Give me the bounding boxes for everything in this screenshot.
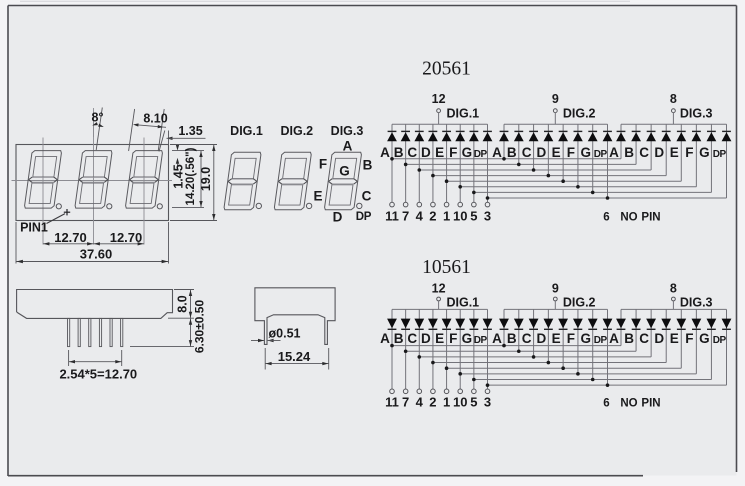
title 10561 [422, 257, 471, 278]
svg-text:G: G [580, 145, 591, 160]
svg-text:F: F [449, 331, 457, 346]
label DIG.2 (segment diagram) [280, 124, 313, 138]
bus DIG.3 common rail [20561] [621, 123, 726, 125]
segment label D DIG.3 [20561] [654, 145, 664, 160]
LED DIG.3 segment C [10561] [646, 309, 656, 357]
digit DIG.2 glyph (segment diagram) [274, 152, 311, 210]
segment label B DIG.1 [20561] [394, 145, 404, 160]
pin 5 (segment G) [20561] [470, 202, 477, 223]
svg-text:F: F [685, 145, 693, 160]
net segment B interconnect [10561] [404, 349, 636, 353]
note 6 NO PIN [10561] [603, 398, 660, 410]
decimal point DIG.2 (segment diagram) [306, 203, 311, 208]
segment label F DIG.1 [10561] [449, 331, 457, 346]
LED DIG.2 segment E [20561] [558, 124, 568, 181]
node DIG.2 label [20561] [563, 107, 596, 121]
svg-text:F: F [567, 331, 575, 346]
svg-text:F: F [449, 145, 457, 160]
pin 1 (segment E) [20561] [443, 202, 450, 223]
svg-text:B: B [394, 331, 404, 346]
decimal point DIG.1 (segment diagram) [256, 203, 261, 208]
svg-text:6.30±0.50: 6.30±0.50 [193, 300, 207, 354]
segment label DP DIG.1 [10561] [474, 335, 488, 346]
LED DIG.1 segment B [10561] [401, 309, 411, 389]
svg-text:14.20(.56"): 14.20(.56") [185, 147, 197, 205]
svg-text:4: 4 [416, 395, 424, 410]
segment label E DIG.3 [10561] [670, 331, 679, 346]
svg-text:C: C [639, 145, 649, 160]
svg-text:5: 5 [470, 395, 477, 410]
segment label DP DIG.2 [20561] [594, 149, 608, 160]
segment label C DIG.1 [10561] [407, 331, 417, 346]
segment label F DIG.2 [10561] [567, 331, 575, 346]
title 20561 [422, 59, 471, 80]
LED DIG.3 segment DP [10561] [722, 309, 732, 385]
segment label B (segment diagram) [363, 158, 373, 173]
bus DIG.2 common rail [10561] [504, 308, 608, 310]
label DIG.3 (segment diagram) [331, 124, 364, 138]
LED DIG.2 segment D [10561] [544, 309, 554, 362]
LED DIG.2 segment A [20561] [499, 124, 509, 159]
LED DIG.3 segment D [20561] [661, 124, 671, 175]
side view pin 3 [89, 318, 91, 346]
svg-text:DIG.2: DIG.2 [563, 107, 596, 121]
segment label E DIG.1 [10561] [435, 331, 444, 346]
segment label A DIG.1 [20561] [380, 145, 390, 160]
svg-text:DP: DP [356, 211, 372, 223]
LED DIG.2 segment B [20561] [514, 124, 524, 164]
net segment C interconnect [10561] [417, 355, 651, 359]
net segment D interconnect [10561] [431, 361, 666, 365]
svg-text:E: E [435, 331, 444, 346]
LED DIG.1 segment E [20561] [442, 124, 452, 202]
svg-text:D: D [654, 331, 664, 346]
segment label F DIG.3 [10561] [685, 331, 693, 346]
pin 11 (segment A) [20561] [385, 202, 399, 223]
svg-text:C: C [522, 145, 532, 160]
segment label A DIG.3 [20561] [609, 145, 619, 160]
pin 11 (segment A) [10561] [385, 389, 399, 410]
svg-text:D: D [421, 331, 431, 346]
svg-text:DP: DP [594, 149, 608, 160]
segment label E DIG.2 [10561] [552, 331, 561, 346]
svg-text:10561: 10561 [422, 257, 471, 278]
pin 4 (segment C) [20561] [416, 202, 424, 223]
svg-text:1: 1 [443, 208, 450, 223]
svg-text:8: 8 [670, 281, 677, 295]
svg-text:NO: NO [620, 398, 637, 410]
svg-text:DP: DP [713, 335, 727, 346]
net segment B interconnect [20561] [404, 163, 636, 167]
side view pin 5 [110, 318, 112, 346]
bus DIG.1 common rail [10561] [392, 308, 488, 310]
LED DIG.3 segment F [20561] [692, 124, 702, 187]
svg-text:9: 9 [552, 281, 559, 295]
segment label G DIG.3 [20561] [699, 145, 710, 160]
LED DIG.3 segment C [20561] [646, 124, 656, 170]
net segment E interconnect [10561] [445, 366, 682, 370]
LED DIG.1 segment D [10561] [428, 309, 438, 389]
pin 1 (segment E) [10561] [443, 389, 450, 410]
svg-text:DP: DP [474, 335, 488, 346]
pin 3 (segment DP) [10561] [484, 389, 491, 410]
svg-text:8.0: 8.0 [175, 295, 189, 312]
segment label F DIG.1 [20561] [449, 145, 457, 160]
segment label F (segment diagram) [319, 157, 327, 172]
segment label G (segment diagram) [339, 164, 350, 179]
svg-text:DIG.2: DIG.2 [280, 124, 313, 138]
decimal point digit 2 (front view) [107, 204, 112, 209]
svg-text:5: 5 [470, 208, 477, 223]
svg-text:D: D [536, 145, 546, 160]
node DIG.3 label [20561] [680, 107, 713, 121]
LED DIG.2 segment E [10561] [558, 309, 568, 368]
svg-text:D: D [654, 145, 664, 160]
svg-text:B: B [363, 158, 373, 173]
svg-text:D: D [333, 209, 343, 224]
svg-text:DIG.3: DIG.3 [331, 124, 364, 138]
center line digit 2 [93, 112, 95, 245]
svg-text:6: 6 [603, 211, 609, 223]
segment label A DIG.1 [10561] [380, 331, 390, 346]
segment label G DIG.3 [10561] [699, 331, 710, 346]
LED DIG.2 segment F [10561] [573, 309, 583, 373]
net segment DP interconnect [10561] [486, 383, 727, 387]
center line digit 1 [42, 138, 44, 245]
segment label B DIG.2 [20561] [507, 145, 517, 160]
svg-text:1.45: 1.45 [172, 164, 186, 188]
bus DIG.1 common rail [20561] [392, 123, 488, 125]
segment label E DIG.1 [20561] [435, 145, 444, 160]
pin 7 (segment B) [10561] [402, 389, 409, 410]
svg-text:G: G [462, 145, 473, 160]
svg-text:NO: NO [620, 211, 637, 223]
svg-text:E: E [670, 331, 679, 346]
LED DIG.1 segment G [10561] [469, 309, 479, 389]
net segment A interconnect [20561] [390, 157, 621, 161]
svg-text:G: G [462, 331, 473, 346]
segment label D DIG.1 [10561] [421, 331, 431, 346]
center line digit 3 [143, 138, 145, 245]
LED DIG.1 segment A [20561] [387, 124, 397, 202]
segment label D DIG.2 [10561] [536, 331, 546, 346]
note 6 NO PIN [20561] [603, 211, 660, 223]
net segment F interconnect [20561] [458, 185, 696, 189]
svg-text:A: A [492, 145, 502, 160]
segment label D DIG.3 [10561] [654, 331, 664, 346]
svg-text:12.70: 12.70 [54, 230, 87, 245]
dimension 1.45 [172, 145, 186, 189]
segment label C DIG.1 [20561] [407, 145, 417, 160]
svg-text:PIN: PIN [641, 211, 660, 223]
svg-text:11: 11 [385, 395, 399, 410]
segment label B DIG.3 [10561] [624, 331, 634, 346]
LED DIG.3 segment B [10561] [631, 309, 641, 351]
pin 8 (DIG.3 common) [10561] [670, 281, 677, 309]
segment label C DIG.3 [20561] [639, 145, 649, 160]
segment label C DIG.3 [10561] [639, 331, 649, 346]
dimension 8.10 digit width [129, 109, 168, 151]
svg-text:C: C [639, 331, 649, 346]
net segment C interconnect [20561] [417, 168, 651, 172]
decimal point digit 1 (front view) [56, 204, 61, 209]
svg-text:B: B [394, 145, 404, 160]
svg-text:9: 9 [552, 92, 559, 106]
net segment E interconnect [20561] [445, 179, 682, 183]
svg-text:3: 3 [484, 208, 491, 223]
svg-text:C: C [362, 189, 372, 204]
pin 10 (segment F) [10561] [453, 389, 467, 410]
net segment D interconnect [20561] [431, 174, 666, 178]
LED DIG.1 segment B [20561] [401, 124, 411, 202]
segment label G DIG.1 [10561] [462, 331, 473, 346]
segment label DP DIG.3 [20561] [713, 149, 727, 160]
svg-text:7: 7 [402, 208, 409, 223]
svg-text:A: A [380, 331, 390, 346]
LED DIG.2 segment DP [20561] [603, 124, 613, 198]
LED DIG.1 segment DP [10561] [483, 309, 493, 389]
svg-text:19.0: 19.0 [199, 167, 213, 191]
center line horizontal [12, 180, 173, 182]
LED DIG.1 segment G [20561] [469, 124, 479, 202]
node DIG.2 label [10561] [563, 296, 596, 310]
segment label A (segment diagram) [343, 138, 353, 153]
segment label F DIG.3 [20561] [685, 145, 693, 160]
svg-text:10: 10 [453, 395, 467, 410]
side view pin 1 [68, 318, 70, 346]
svg-text:DP: DP [594, 335, 608, 346]
LED DIG.1 segment DP [20561] [483, 124, 493, 202]
digit 3 outline (front view) [126, 151, 163, 209]
svg-text:DP: DP [474, 149, 488, 160]
svg-text:A: A [609, 145, 619, 160]
svg-text:8.10: 8.10 [143, 112, 167, 126]
segment label D (segment diagram) [333, 209, 343, 224]
segment label E DIG.2 [20561] [552, 145, 561, 160]
net segment G interconnect [10561] [472, 378, 711, 382]
pin 9 (DIG.2 common) [10561] [552, 281, 559, 309]
svg-text:A: A [492, 331, 502, 346]
svg-text:12: 12 [432, 281, 446, 295]
dimension 0.51 pin diameter [251, 326, 301, 342]
segment label E (segment diagram) [313, 189, 322, 204]
LED DIG.3 segment DP [20561] [722, 124, 732, 198]
LED DIG.3 segment E [10561] [676, 309, 686, 368]
LED DIG.3 segment G [20561] [707, 124, 717, 192]
LED DIG.1 segment F [10561] [455, 309, 465, 389]
bus DIG.3 common rail [10561] [621, 308, 726, 310]
svg-text:F: F [319, 157, 327, 172]
svg-text:8°: 8° [92, 111, 104, 125]
dimension 14.20(.56in) digit height [172, 147, 204, 207]
pin 9 (DIG.2 common) [20561] [552, 92, 559, 124]
segment label C DIG.2 [10561] [522, 331, 532, 346]
svg-text:D: D [421, 145, 431, 160]
label DIG.1 (segment diagram) [230, 124, 263, 138]
pin 7 (segment B) [20561] [402, 202, 409, 223]
segment label G DIG.2 [10561] [580, 331, 591, 346]
svg-text:12.70: 12.70 [110, 230, 143, 245]
segment label B DIG.3 [20561] [624, 145, 634, 160]
pin 5 (segment G) [10561] [470, 389, 477, 410]
dimension 12.70 digit pitch right [94, 230, 145, 245]
svg-text:DP: DP [713, 149, 727, 160]
svg-text:ø0.51: ø0.51 [269, 326, 301, 340]
PIN1 marker [20, 209, 70, 235]
svg-text:E: E [552, 145, 561, 160]
svg-text:DIG.3: DIG.3 [680, 107, 713, 121]
pin 3 (segment DP) [20561] [484, 202, 491, 223]
side view pin 2 [78, 318, 80, 346]
svg-text:F: F [685, 331, 693, 346]
dimension 12.70 digit pitch left [43, 230, 94, 245]
svg-text:DIG.2: DIG.2 [563, 296, 596, 310]
svg-text:8: 8 [670, 92, 677, 106]
svg-text:2: 2 [429, 208, 436, 223]
LED DIG.2 segment DP [10561] [603, 309, 613, 385]
svg-text:E: E [313, 189, 322, 204]
LED DIG.1 segment C [10561] [414, 309, 424, 389]
segment label G DIG.2 [20561] [580, 145, 591, 160]
LED DIG.2 segment D [20561] [544, 124, 554, 175]
dimension 8.0 body thickness [168, 290, 194, 319]
LED DIG.3 segment G [10561] [707, 309, 717, 379]
LED DIG.1 segment D [20561] [428, 124, 438, 202]
LED DIG.3 segment E [20561] [676, 124, 686, 181]
svg-text:37.60: 37.60 [80, 246, 113, 261]
svg-text:F: F [567, 145, 575, 160]
dimension 15.24 pin row span [265, 348, 329, 370]
side view pin 4 [99, 318, 101, 346]
LED DIG.2 segment F [20561] [573, 124, 583, 187]
svg-text:2: 2 [429, 395, 436, 410]
pin 8 (DIG.3 common) [20561] [670, 92, 677, 124]
segment label A DIG.3 [10561] [609, 331, 619, 346]
svg-text:PIN: PIN [641, 398, 660, 410]
svg-text:C: C [407, 331, 417, 346]
LED DIG.2 segment C [20561] [529, 124, 539, 170]
display front view body outline [16, 145, 169, 221]
svg-text:4: 4 [416, 208, 424, 223]
svg-text:A: A [343, 138, 353, 153]
svg-text:G: G [699, 145, 710, 160]
segment label D DIG.1 [20561] [421, 145, 431, 160]
LED DIG.2 segment C [10561] [529, 309, 539, 357]
segment label F DIG.2 [20561] [567, 145, 575, 160]
segment label B DIG.2 [10561] [507, 331, 517, 346]
svg-text:1: 1 [443, 395, 450, 410]
decimal point DIG.3 (segment diagram) [357, 203, 362, 208]
svg-text:10: 10 [453, 208, 467, 223]
svg-text:7: 7 [402, 395, 409, 410]
svg-text:E: E [435, 145, 444, 160]
svg-text:G: G [339, 164, 350, 179]
decimal point digit 3 (front view) [157, 204, 162, 209]
dimension 6.30 +/-0.50 pin length [130, 300, 207, 354]
segment label D DIG.2 [20561] [536, 145, 546, 160]
net segment F interconnect [10561] [458, 372, 696, 376]
pin 10 (segment F) [20561] [453, 202, 467, 223]
LED DIG.2 segment B [10561] [514, 309, 524, 351]
segment label A DIG.2 [10561] [492, 331, 502, 346]
segment label E DIG.3 [20561] [670, 145, 679, 160]
digit 1 outline (front view) [25, 151, 62, 209]
LED DIG.1 segment E [10561] [442, 309, 452, 389]
LED DIG.3 segment A [10561] [616, 309, 626, 345]
digit 2 outline (front view) [75, 151, 112, 209]
LED DIG.3 segment A [20561] [616, 124, 626, 159]
svg-text:C: C [522, 331, 532, 346]
svg-text:G: G [699, 331, 710, 346]
node DIG.3 label [10561] [680, 296, 713, 310]
segment label C DIG.2 [20561] [522, 145, 532, 160]
svg-text:DIG.1: DIG.1 [230, 124, 263, 138]
svg-text:B: B [507, 145, 517, 160]
pin 2 (segment D) [20561] [429, 202, 436, 223]
svg-text:B: B [507, 331, 517, 346]
svg-text:C: C [407, 145, 417, 160]
segment label C (segment diagram) [362, 189, 372, 204]
segment label DP (segment diagram) [356, 211, 372, 223]
svg-text:6: 6 [603, 398, 609, 410]
dimension 2.54*5=12.70 pin pitch [59, 350, 137, 382]
segment label A DIG.2 [20561] [492, 145, 502, 160]
net segment A interconnect [10561] [390, 344, 621, 348]
svg-text:3: 3 [484, 395, 491, 410]
pin 4 (segment C) [10561] [416, 389, 424, 410]
LED DIG.2 segment G [20561] [588, 124, 598, 192]
bus DIG.2 common rail [20561] [504, 123, 608, 125]
svg-text:G: G [580, 331, 591, 346]
dimension 1.35 [159, 124, 206, 151]
segment label G DIG.1 [20561] [462, 145, 473, 160]
end view body outline [255, 288, 335, 345]
LED DIG.2 segment A [10561] [499, 309, 509, 345]
svg-text:12: 12 [432, 92, 446, 106]
digit DIG.3 glyph (segment diagram) [325, 152, 362, 210]
svg-text:15.24: 15.24 [278, 349, 311, 364]
svg-text:B: B [624, 331, 634, 346]
net segment DP interconnect [20561] [486, 196, 727, 200]
segment label DP DIG.2 [10561] [594, 335, 608, 346]
side view pin 6 [121, 318, 123, 346]
segment label DP DIG.1 [20561] [474, 149, 488, 160]
node DIG.1 label [10561] [446, 296, 479, 310]
dimension 8 deg slant angle [92, 108, 104, 151]
LED DIG.2 segment G [10561] [588, 309, 598, 379]
segment label B DIG.1 [10561] [394, 331, 404, 346]
pin 12 (DIG.1 common) [20561] [432, 92, 446, 124]
svg-text:11: 11 [385, 208, 399, 223]
svg-text:PIN1: PIN1 [20, 221, 48, 235]
svg-text:E: E [552, 331, 561, 346]
svg-text:A: A [609, 331, 619, 346]
LED DIG.3 segment F [10561] [692, 309, 702, 373]
svg-text:20561: 20561 [422, 59, 471, 80]
dimension 37.60 body width [16, 222, 169, 264]
pin 12 (DIG.1 common) [10561] [432, 281, 446, 309]
svg-text:B: B [624, 145, 634, 160]
net segment G interconnect [20561] [472, 191, 711, 195]
svg-text:DIG.1: DIG.1 [446, 107, 479, 121]
digit DIG.1 glyph (segment diagram) [224, 152, 261, 210]
pin 2 (segment D) [10561] [429, 389, 436, 410]
segment label DP DIG.3 [10561] [713, 335, 727, 346]
side view body outline [17, 290, 173, 319]
LED DIG.1 segment A [10561] [387, 309, 397, 389]
svg-text:1.35: 1.35 [178, 124, 202, 138]
svg-text:E: E [670, 145, 679, 160]
